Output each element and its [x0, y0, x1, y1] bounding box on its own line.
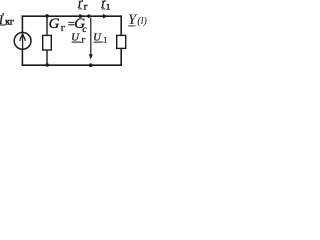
wire right branch lower [120, 48, 122, 66]
label Y(l) [128, 12, 148, 28]
current arrow I_1 on top wire [103, 14, 108, 19]
node dot bottom of G branch [45, 63, 49, 67]
svg-text:1: 1 [103, 36, 107, 45]
wire top bus [22, 15, 122, 17]
svg-text:(l): (l) [137, 16, 147, 27]
label U_g [71, 33, 85, 46]
svg-text:г: г [82, 36, 86, 46]
label I_kg (source current) [0, 13, 14, 27]
svg-text:G: G [49, 16, 60, 32]
current source J1 circle [14, 33, 31, 50]
wire G branch lower [46, 50, 48, 65]
svg-text:г: г [84, 2, 88, 12]
label U_1 [93, 33, 107, 45]
wire right branch upper [120, 15, 122, 35]
svg-text:c: c [82, 24, 87, 35]
voltage arrow U (vertical) [90, 18, 92, 56]
load Y(l) box [117, 35, 126, 48]
node dot bottom (U arrow) [89, 63, 93, 67]
svg-text:г: г [61, 22, 66, 34]
svg-text:1: 1 [106, 3, 110, 12]
wire G branch upper [46, 16, 48, 36]
current source J1 arrow [20, 34, 26, 50]
wire bottom bus [22, 64, 122, 66]
node dot top (U arrow) [87, 14, 90, 17]
node dot top of G branch [45, 14, 49, 18]
wire left branch lower segment [21, 49, 23, 66]
label I_g [77, 0, 88, 12]
svg-text:кг: кг [5, 16, 14, 27]
conductance G box [43, 35, 52, 50]
current arrow I_g on top wire [79, 14, 84, 19]
label I_1 [100, 0, 110, 12]
wire left branch upper segment [21, 15, 23, 33]
label Gg = Gc [49, 16, 88, 35]
